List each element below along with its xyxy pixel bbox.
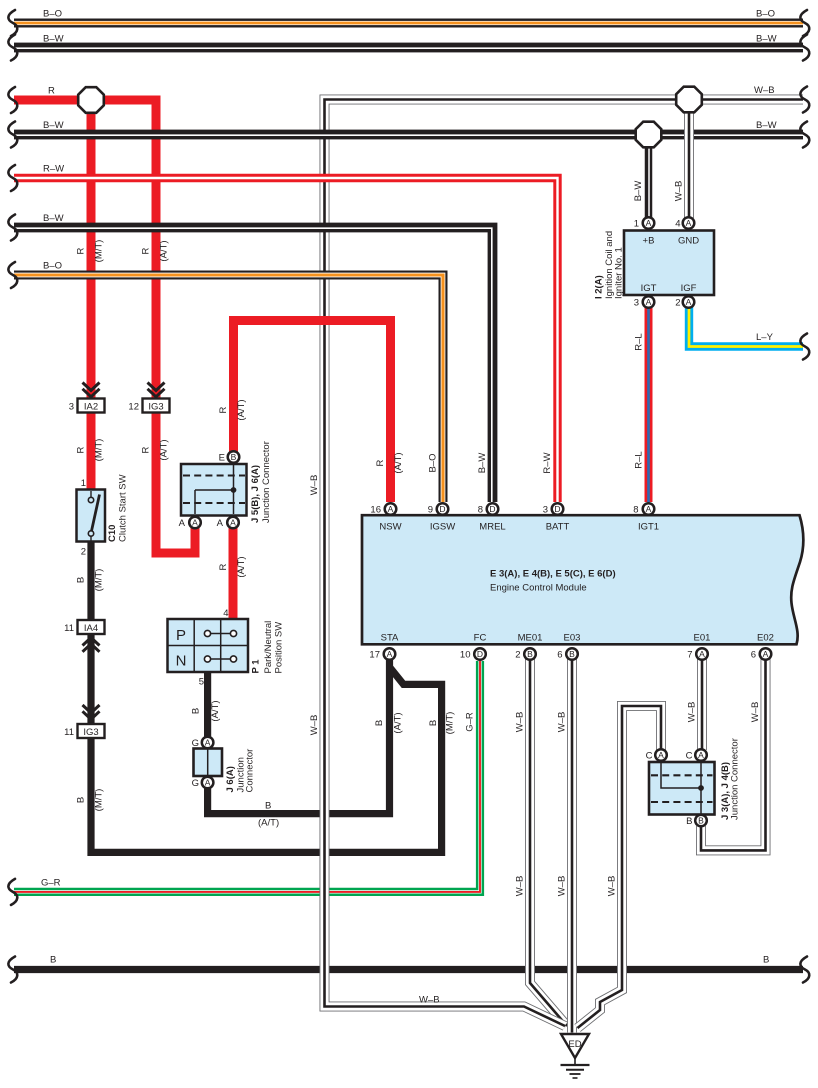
svg-text:6: 6 (751, 650, 756, 661)
svg-text:C: C (646, 751, 653, 762)
wire B (M/T) from IG3 down, right and up merging into STA wire (91, 668, 442, 852)
wire B (A/T) from ECM STA pin 17 down, left, up to junction connector J6(A) (208, 659, 390, 814)
svg-text:A: A (763, 649, 769, 659)
ECM top pin 8 (A) IGT1 (633, 503, 654, 515)
bus B-W #1 (y 47.5) (14, 43, 803, 53)
svg-text:A: A (388, 504, 394, 514)
svg-text:3: 3 (69, 402, 74, 413)
bus B-W #3 (y 227.5) ending in riser to MREL (14, 228, 493, 503)
svg-text:IGF: IGF (681, 283, 697, 294)
wire R (A/T) from J5 pin E up, right, down to ECM NSW pin 16 (234, 321, 391, 503)
wire W-B long vertical lower segment turning right into ground point ED (325, 795, 566, 1026)
junction connector J5(B), J6(A) (181, 441, 272, 523)
svg-text:R–L: R–L (634, 333, 645, 350)
svg-text:R: R (76, 446, 87, 453)
chevron arrows on R (M/T) wire above IA2 (83, 383, 100, 397)
svg-text:W–B: W–B (607, 876, 618, 897)
svg-text:MREL: MREL (479, 522, 505, 533)
ECM top pin 3 (D) BATT (543, 503, 564, 515)
svg-text:6: 6 (557, 650, 562, 661)
igniter pin 4 (A) (683, 217, 695, 229)
svg-text:B: B (191, 708, 202, 714)
svg-text:R: R (141, 247, 152, 254)
svg-text:B–O: B–O (428, 453, 439, 472)
svg-text:A: A (179, 518, 186, 529)
wire W-B from octagon on W-B line down to igniter GND pin 4 (684, 100, 694, 219)
svg-text:I 2(A): I 2(A) (594, 275, 605, 299)
svg-text:A: A (217, 518, 224, 529)
svg-text:A: A (192, 517, 198, 527)
svg-text:Connector: Connector (245, 749, 256, 793)
svg-text:7: 7 (687, 650, 692, 661)
svg-text:L–Y: L–Y (756, 332, 774, 343)
ECM top pin 16 (A) NSW (370, 503, 396, 515)
svg-text:9: 9 (428, 505, 433, 516)
svg-text:B: B (763, 955, 769, 966)
svg-text:W–B: W–B (309, 475, 320, 496)
svg-text:3: 3 (543, 505, 548, 516)
wire B (A/T) park/neutral switch pin 5 to J6(A) top pin (204, 671, 211, 737)
bus R-W (y 178) ending in riser to BATT (14, 178, 558, 502)
bus B-W #2 (y 134.5) (14, 130, 803, 140)
svg-text:(A/T): (A/T) (236, 556, 247, 577)
svg-text:C10: C10 (107, 525, 118, 542)
svg-text:8: 8 (633, 505, 638, 516)
svg-text:Engine Control Module: Engine Control Module (490, 583, 587, 594)
svg-text:W–B: W–B (754, 85, 775, 96)
svg-text:(A/T): (A/T) (258, 818, 279, 829)
J3 top pin C (A) left (646, 749, 667, 761)
svg-text:2: 2 (515, 650, 520, 661)
junction connector J6(A) (194, 749, 256, 793)
svg-text:G–R: G–R (41, 878, 61, 889)
svg-text:8: 8 (478, 505, 483, 516)
svg-text:B–W: B–W (633, 181, 644, 202)
svg-text:B: B (698, 815, 704, 825)
ECM Engine Control Module box (362, 515, 803, 644)
J5 bottom pin A (A) left (179, 517, 201, 529)
svg-text:G–R: G–R (465, 712, 476, 732)
J3 top pin C (A) right (686, 749, 707, 761)
svg-text:B: B (76, 577, 87, 583)
svg-text:A: A (205, 737, 211, 747)
wire B (M/T) from IA4 to IG3 connector (87, 634, 94, 724)
svg-text:B–W: B–W (43, 34, 64, 45)
svg-text:B: B (231, 452, 237, 462)
svg-text:+B: +B (643, 236, 655, 247)
wire break symbols at right edge (800, 10, 809, 983)
svg-text:ED: ED (568, 1039, 581, 1050)
connector IA2 (pin 3) (69, 399, 105, 413)
svg-text:4: 4 (675, 219, 680, 230)
svg-text:E01: E01 (694, 633, 711, 644)
svg-text:J 6(A): J 6(A) (225, 766, 236, 792)
svg-text:A: A (646, 504, 652, 514)
svg-text:B–W: B–W (43, 120, 64, 131)
svg-text:R–W: R–W (43, 164, 64, 175)
wire W-B from ECM E01 pin 7 down to junction connector J3 pin C (697, 659, 707, 750)
wire W-B from ECM E02 pin 6 down, left, up to junction connector J3 pin B (701, 659, 766, 850)
svg-text:(A/T): (A/T) (210, 700, 221, 721)
svg-text:A: A (646, 297, 652, 307)
wire L-Y from igniter IGF pin 2 down and right to break (689, 307, 803, 347)
bus B-O top (y 23) (14, 19, 803, 28)
svg-text:B: B (76, 797, 87, 803)
svg-text:Park/Neutral: Park/Neutral (263, 621, 274, 674)
ECM bottom pin 2 (B) ME01 (515, 648, 536, 660)
svg-text:1: 1 (634, 219, 639, 230)
svg-text:J 5(B), J 6(A): J 5(B), J 6(A) (250, 465, 261, 523)
svg-text:(M/T): (M/T) (94, 789, 105, 812)
svg-text:B: B (265, 801, 271, 812)
svg-text:B–W: B–W (477, 453, 488, 474)
svg-text:ME01: ME01 (518, 633, 543, 644)
svg-text:IGT: IGT (641, 283, 657, 294)
chevron arrows pointing up below IA4 (83, 638, 100, 652)
svg-text:A: A (387, 649, 393, 659)
svg-text:B: B (569, 649, 575, 659)
svg-text:R–W: R–W (542, 452, 553, 473)
connector IG3 lower (pin 11) (64, 724, 104, 738)
svg-text:Igniter No. 1: Igniter No. 1 (614, 247, 625, 299)
wire R (A/T) from J5 lower pin A down to park/neutral switch pin 4 (229, 528, 238, 620)
rotated wire labels (76, 181, 762, 897)
svg-text:5: 5 (199, 677, 204, 688)
igniter pin 2 (A) (683, 296, 695, 308)
wire R horizontal top-left with corner down to IG3 (A/T) (14, 100, 156, 399)
ECM bottom pin 7 (A) E01 (687, 648, 708, 660)
svg-text:R–L: R–L (634, 451, 645, 468)
svg-text:C: C (686, 751, 693, 762)
svg-text:IG3: IG3 (83, 727, 98, 738)
svg-text:IA4: IA4 (84, 623, 98, 634)
svg-text:B–O: B–O (756, 9, 775, 20)
wire R (A/T) from IG3 down, right, up to junction connector J5 pin A (156, 413, 195, 554)
svg-text:B–O: B–O (43, 261, 62, 272)
svg-text:B: B (374, 720, 385, 726)
svg-text:W–B: W–B (557, 712, 568, 733)
svg-text:10: 10 (460, 650, 471, 661)
wire break symbols at left edge (8, 10, 17, 983)
svg-text:R: R (218, 406, 229, 413)
svg-text:Junction Connector: Junction Connector (730, 738, 741, 820)
svg-text:(M/T): (M/T) (445, 712, 456, 735)
svg-text:R: R (218, 563, 229, 570)
svg-text:P 1: P 1 (251, 659, 262, 674)
svg-text:W–B: W–B (674, 181, 685, 202)
switch C10 Clutch Start SW (77, 474, 129, 557)
svg-text:A: A (230, 517, 236, 527)
svg-text:(A/T): (A/T) (236, 399, 247, 420)
svg-text:11: 11 (64, 727, 74, 738)
svg-text:E03: E03 (564, 633, 581, 644)
svg-text:A: A (205, 777, 211, 787)
igniter pin 1 (A) (643, 217, 655, 229)
svg-text:B–O: B–O (43, 9, 62, 20)
svg-text:A: A (686, 218, 692, 228)
svg-text:B: B (428, 720, 439, 726)
svg-text:17: 17 (369, 650, 380, 661)
svg-text:A: A (699, 649, 705, 659)
J5 top pin E (B) (219, 451, 240, 463)
bus B bottom (y 969.5) (14, 966, 803, 973)
svg-text:2: 2 (675, 298, 680, 309)
svg-text:G: G (192, 778, 199, 789)
svg-text:G: G (192, 738, 199, 749)
svg-text:3: 3 (634, 298, 639, 309)
ECM bottom pin 10 (D) FC (460, 648, 486, 660)
svg-text:16: 16 (370, 505, 381, 516)
svg-text:11: 11 (64, 623, 74, 634)
wire R (M/T) from octagon splice down to IA2 (87, 100, 96, 399)
svg-text:(A/T): (A/T) (159, 240, 170, 261)
svg-text:R: R (141, 446, 152, 453)
svg-text:E 3(A), E 4(B), E 5(C), E 6(D): E 3(A), E 4(B), E 5(C), E 6(D) (490, 569, 616, 580)
svg-text:W–B: W–B (750, 702, 761, 723)
svg-text:E02: E02 (757, 633, 774, 644)
svg-text:Clutch Start SW: Clutch Start SW (118, 474, 129, 542)
ECM bottom pin 6 (A) E02 (751, 648, 772, 660)
svg-text:1: 1 (81, 478, 86, 489)
splice octagon on R wire (78, 87, 104, 113)
svg-text:A: A (698, 750, 704, 760)
svg-text:(A/T): (A/T) (159, 439, 170, 460)
svg-text:W–B: W–B (557, 876, 568, 897)
svg-text:W–B: W–B (309, 715, 320, 736)
svg-text:Position SW: Position SW (274, 622, 285, 674)
J3 bottom pin B (B) (686, 815, 707, 827)
svg-text:A: A (646, 218, 652, 228)
wire R (M/T) from IA2 to clutch start switch pin 1 (87, 413, 96, 493)
svg-text:12: 12 (128, 402, 139, 413)
svg-text:D: D (439, 504, 445, 514)
svg-text:Junction Connector: Junction Connector (261, 441, 272, 523)
splice octagon on B-W bus (636, 122, 662, 148)
J5 bottom pin A (A) right (217, 517, 239, 529)
svg-text:IG3: IG3 (148, 402, 163, 413)
svg-text:(M/T): (M/T) (94, 240, 105, 263)
wire W-B from ECM ME01 pin 2 down to ground point ED (530, 659, 567, 1026)
svg-text:D: D (554, 504, 560, 514)
svg-text:B–W: B–W (756, 120, 777, 131)
bus B-O #2 (y 275) ending in riser to IGSW (14, 275, 443, 502)
svg-text:B: B (686, 816, 692, 827)
svg-text:R: R (375, 459, 386, 466)
svg-text:R: R (48, 86, 55, 97)
connector IG3 (pin 12) (128, 399, 169, 413)
wire W-B from ECM E03 pin 6 straight down to ground point ED (567, 659, 577, 1033)
J6(A) bottom pin G (A) (192, 777, 214, 789)
svg-text:STA: STA (381, 633, 399, 644)
splice octagon on W-B line (676, 87, 702, 113)
svg-text:P: P (176, 627, 186, 644)
svg-text:R: R (76, 247, 87, 254)
wire B-W from octagon on B-W bus down to igniter +B pin 1 (645, 135, 653, 219)
svg-text:IA2: IA2 (84, 402, 98, 413)
svg-text:B–W: B–W (43, 213, 64, 224)
svg-text:D: D (477, 649, 483, 659)
svg-text:(M/T): (M/T) (94, 569, 105, 592)
svg-text:W–B: W–B (687, 702, 698, 723)
svg-text:B: B (50, 955, 56, 966)
svg-text:W–B: W–B (515, 712, 526, 733)
wire W-B from junction connector J3 pin C up, left and down to ground point ED (578, 706, 662, 1028)
svg-text:A: A (658, 750, 664, 760)
svg-text:IGSW: IGSW (430, 522, 455, 533)
ECM top pin 9 (D) IGSW (428, 503, 449, 515)
connector IA4 (pin 11) (64, 620, 104, 634)
svg-text:W–B: W–B (515, 876, 526, 897)
svg-text:2: 2 (81, 547, 86, 558)
junction connector J3(A), J4(B) (649, 738, 741, 820)
wire W-B from right break along top, corner down long vertical (upper segment) (325, 100, 804, 801)
svg-text:B–W: B–W (756, 34, 777, 45)
svg-text:(A/T): (A/T) (393, 712, 404, 733)
svg-text:A: A (686, 297, 692, 307)
svg-text:FC: FC (474, 633, 487, 644)
ground symbol ED (561, 1034, 590, 1078)
svg-text:BATT: BATT (546, 522, 570, 533)
svg-text:(M/T): (M/T) (94, 439, 105, 462)
svg-text:GND: GND (678, 236, 699, 247)
svg-text:D: D (489, 504, 495, 514)
chevron arrows pointing down above lower IG3 (83, 705, 100, 719)
ECM bottom pin 6 (B) E03 (557, 648, 578, 660)
bus G-R (y 891.9) ending in riser to FC (14, 661, 480, 892)
svg-text:IGT1: IGT1 (638, 522, 659, 533)
svg-text:4: 4 (223, 608, 228, 619)
svg-text:NSW: NSW (379, 522, 401, 533)
chevron arrows on R (A/T) wire above IG3 (148, 383, 165, 397)
switch P1 Park/Neutral Position SW (168, 608, 285, 688)
svg-text:B: B (527, 649, 533, 659)
svg-text:N: N (176, 653, 187, 670)
ECM bottom pin 17 (A) STA (369, 648, 395, 660)
svg-text:E: E (219, 453, 225, 464)
ECM top pin 8 (D) MREL (478, 503, 499, 515)
igniter pin 3 (A) (643, 296, 655, 308)
J6(A) top pin G (A) (192, 737, 214, 749)
igniter I2(A) Ignition Coil and Igniter No. 1 (594, 219, 715, 309)
wire R-L from igniter IGT pin 3 down to ECM IGT1 pin 8 (645, 307, 653, 502)
svg-text:(A/T): (A/T) (393, 452, 404, 473)
svg-text:W–B: W–B (419, 995, 440, 1006)
wire B (M/T) clutch switch pin 2 to IA4 connector (87, 540, 94, 620)
